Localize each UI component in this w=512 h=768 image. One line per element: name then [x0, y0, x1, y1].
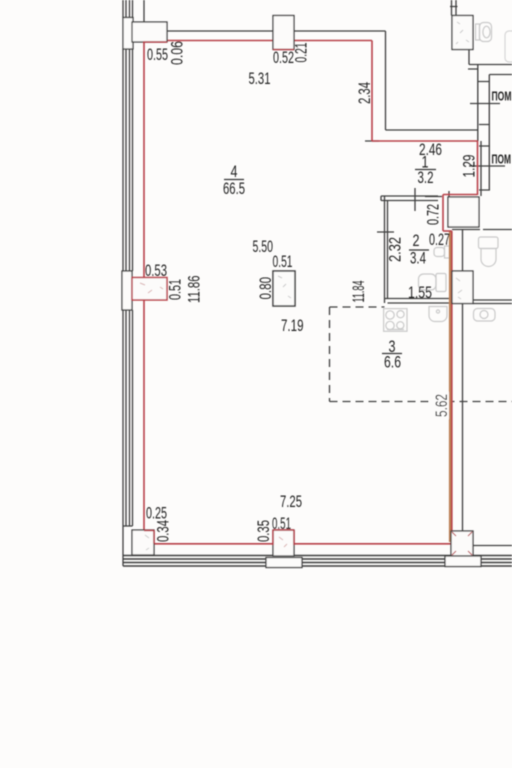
- svg-text:2.34: 2.34: [356, 82, 374, 104]
- svg-text:0.55: 0.55: [147, 46, 168, 64]
- svg-text:7.25: 7.25: [280, 493, 302, 511]
- svg-text:4: 4: [231, 163, 238, 181]
- svg-text:2.32: 2.32: [387, 237, 405, 262]
- svg-text:11.84: 11.84: [350, 281, 368, 303]
- svg-text:66.5: 66.5: [223, 180, 245, 198]
- svg-text:0.72: 0.72: [425, 204, 443, 225]
- svg-text:0.25: 0.25: [146, 505, 167, 523]
- svg-text:ПОМ: ПОМ: [492, 153, 512, 167]
- svg-text:1.29: 1.29: [461, 155, 479, 178]
- svg-text:0.34: 0.34: [155, 520, 173, 542]
- svg-text:5.50: 5.50: [253, 238, 274, 256]
- svg-text:0.06: 0.06: [169, 41, 187, 65]
- svg-text:0.21: 0.21: [293, 43, 311, 63]
- svg-text:3.2: 3.2: [418, 169, 434, 187]
- svg-text:0.51: 0.51: [272, 515, 291, 533]
- svg-text:7.19: 7.19: [281, 317, 304, 335]
- svg-text:11.86: 11.86: [186, 276, 204, 304]
- svg-text:1.55: 1.55: [408, 284, 432, 302]
- svg-text:5.31: 5.31: [249, 70, 271, 88]
- svg-text:0.51: 0.51: [273, 253, 293, 271]
- svg-text:0.27: 0.27: [429, 231, 450, 249]
- svg-text:2: 2: [413, 232, 420, 250]
- svg-text:0.52: 0.52: [273, 49, 294, 67]
- svg-text:0.51: 0.51: [167, 279, 185, 300]
- svg-text:3.4: 3.4: [410, 250, 426, 268]
- svg-text:0.80: 0.80: [257, 277, 275, 300]
- svg-text:5.62: 5.62: [433, 394, 451, 417]
- svg-text:ПОМ: ПОМ: [492, 90, 512, 104]
- svg-text:0.53: 0.53: [145, 262, 167, 280]
- svg-text:0.35: 0.35: [255, 520, 273, 542]
- svg-text:6.6: 6.6: [384, 354, 401, 372]
